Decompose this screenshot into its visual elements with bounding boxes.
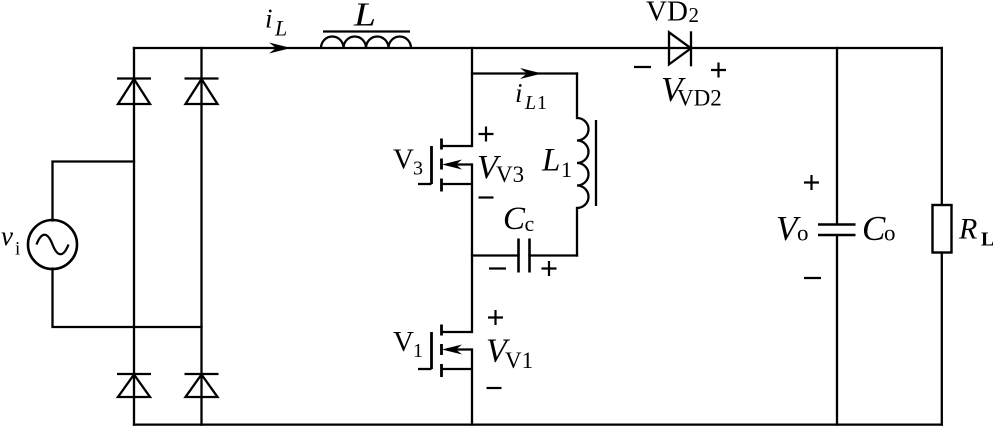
label minus Co	[804, 277, 821, 279]
label iL	[265, 4, 287, 41]
svg-text:3: 3	[413, 158, 423, 180]
diode bridge top-left	[117, 79, 151, 105]
label minus V1	[487, 387, 502, 389]
svg-text:L: L	[524, 92, 536, 114]
svg-text:V3: V3	[496, 162, 524, 187]
svg-text:VD: VD	[646, 0, 688, 28]
label VV3	[477, 149, 524, 187]
wire L1 upper stub	[576, 74, 578, 119]
svg-text:i: i	[265, 4, 273, 34]
svg-text:L: L	[981, 229, 993, 251]
arrow iL	[269, 43, 291, 54]
label VV1	[486, 333, 533, 374]
svg-text:R: R	[958, 213, 977, 246]
wire bottom rail	[134, 423, 942, 425]
svg-text:C: C	[862, 209, 886, 248]
diode bridge top-right	[185, 79, 219, 105]
svg-text:V: V	[393, 326, 414, 358]
label L1	[541, 143, 572, 183]
wire source top lead	[53, 162, 135, 221]
label VD2	[646, 0, 699, 28]
transistor V1	[418, 325, 472, 378]
svg-text:L: L	[541, 143, 560, 179]
wire Cc left	[472, 254, 519, 256]
svg-text:2: 2	[689, 3, 700, 27]
capacitor Cc	[519, 239, 530, 273]
wire L1 loop top	[472, 72, 577, 74]
label Vo	[776, 209, 809, 248]
wire source bottom lead	[53, 269, 202, 328]
svg-text:1: 1	[537, 92, 547, 114]
label plus VD2	[711, 63, 726, 78]
label vi	[1, 221, 20, 260]
svg-text:v: v	[1, 221, 13, 251]
svg-text:VD2: VD2	[677, 86, 722, 111]
label Co	[862, 209, 896, 248]
wire L1 lower stub	[576, 208, 578, 256]
svg-text:V: V	[393, 144, 414, 176]
svg-text:C: C	[503, 201, 526, 237]
label plus Co	[804, 175, 819, 190]
label minus Cc	[489, 267, 506, 269]
inductor L	[321, 32, 411, 49]
wire Co branch lower	[836, 236, 838, 425]
svg-text:i: i	[515, 78, 523, 108]
diode bridge bottom-right	[185, 374, 219, 397]
wire Cc right	[530, 254, 578, 256]
svg-text:1: 1	[413, 340, 423, 362]
diode VD2	[669, 31, 691, 66]
label RL	[958, 213, 993, 251]
svg-text:i: i	[15, 239, 20, 260]
svg-text:c: c	[525, 211, 535, 236]
wire right bridge leg	[200, 48, 202, 425]
label V1	[393, 326, 423, 362]
label plus V3	[479, 127, 494, 142]
wire RL branch lower	[941, 253, 943, 425]
diode bridge bottom-left	[117, 374, 151, 397]
transistor V3	[418, 139, 472, 192]
wire top rail	[134, 47, 942, 49]
wire left bridge leg	[133, 48, 135, 425]
wire middle branch mid	[471, 165, 473, 333]
svg-text:L: L	[353, 0, 376, 34]
source vi	[28, 220, 77, 269]
label plus Cc	[542, 261, 557, 276]
label minus V3	[479, 196, 494, 198]
wire middle branch upper	[471, 48, 473, 146]
capacitor Co	[818, 225, 856, 236]
svg-text:L: L	[274, 16, 287, 41]
svg-text:V1: V1	[505, 348, 533, 373]
wire middle branch lower	[471, 350, 473, 425]
svg-text:o: o	[884, 221, 896, 246]
label V3	[393, 144, 423, 180]
label Cc	[503, 201, 535, 237]
resistor RL	[933, 205, 952, 253]
svg-text:1: 1	[561, 157, 572, 182]
label minus VD2	[634, 66, 651, 68]
inductor L1	[577, 118, 596, 208]
label iL1	[515, 78, 547, 114]
svg-text:o: o	[797, 221, 809, 246]
wire RL branch upper	[941, 48, 943, 205]
label plus V1	[488, 310, 503, 325]
wire Co branch upper	[836, 48, 838, 224]
label VVD2	[661, 70, 722, 111]
arrow iL1	[520, 68, 542, 79]
